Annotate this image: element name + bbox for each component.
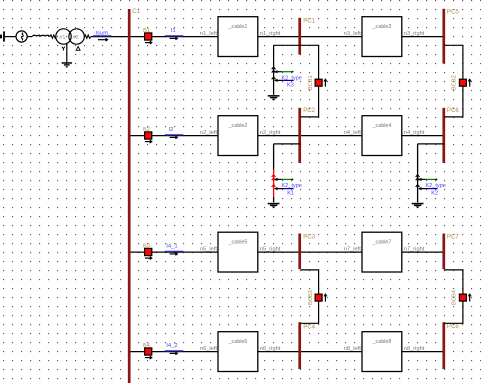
wire row4: cable8 to bus PC8 xyxy=(402,351,445,353)
svg-text:PC6: PC6 xyxy=(447,107,459,114)
current probe I4_1 (blue segment) xyxy=(165,250,184,252)
wire bypass bottom-left (PC3 to PC4) xyxy=(301,270,319,323)
svg-text:BCB3: BCB3 xyxy=(308,290,314,305)
svg-text:K3: K3 xyxy=(287,82,294,88)
svg-text:I1: I1 xyxy=(171,28,176,34)
wire xyxy=(5,36,16,38)
breaker BCB1 xyxy=(315,79,322,86)
wire jog from bus PC6 xyxy=(418,143,444,145)
svg-text:n3_left: n3_left xyxy=(344,31,361,37)
transformer T1 winding 2 xyxy=(69,29,84,44)
cable box _cable3 xyxy=(362,17,402,57)
wire fault F1 vertical xyxy=(273,45,275,95)
wire row2: cable2 to cable4 through bus PC2 xyxy=(258,135,362,137)
svg-text:PC7: PC7 xyxy=(447,233,459,240)
svg-text:PC4: PC4 xyxy=(303,323,315,330)
svg-text:#2: #2 xyxy=(72,35,78,41)
ground (fault F3) xyxy=(412,203,424,205)
wire row4: bus C1 to cable6 xyxy=(130,351,219,353)
terminal bar xyxy=(3,31,5,41)
tap K3 (dark blue) xyxy=(274,79,278,82)
ground (transformer) xyxy=(62,62,72,64)
svg-text:_cable4: _cable4 xyxy=(372,123,392,129)
arrow BCB1 (up) xyxy=(324,80,326,87)
breaker B4 xyxy=(145,348,152,355)
bus PC6 xyxy=(442,108,445,163)
wire row2: cable4 to bus PC6 xyxy=(402,135,445,137)
svg-text:B4: B4 xyxy=(143,343,150,349)
transformer T1 secondary lead zigzag xyxy=(84,35,90,38)
breaker B2 xyxy=(145,132,152,139)
bus C1 xyxy=(128,9,131,383)
wire bypass bottom-right (PC7 to PC8) xyxy=(444,270,463,323)
arrow BCB4 (up) xyxy=(469,295,471,302)
breaker B1 xyxy=(145,33,152,40)
cable box _cable2 xyxy=(218,116,258,156)
arrow BCB2 (up) xyxy=(469,80,471,87)
tap K2 (dark blue) xyxy=(418,187,422,190)
svg-text:n4_left: n4_left xyxy=(344,130,361,136)
current probe I4_2 (blue segment) xyxy=(165,350,184,352)
cable box _cable7 xyxy=(362,232,402,272)
ground (fault F2) xyxy=(268,203,280,205)
wire fault F3 vertical xyxy=(417,144,419,202)
inductor L1 xyxy=(32,35,49,36)
cable box _cable6 xyxy=(218,332,258,372)
tap K1 (dark blue) xyxy=(274,187,278,190)
breaker BCB2 xyxy=(459,79,466,86)
current probe I2 (blue segment) xyxy=(165,134,184,136)
wire row1: cable1 to cable3 through bus PC1 xyxy=(258,36,362,38)
arrow I1 direction xyxy=(170,37,177,39)
source U1 (AC source circle) xyxy=(16,31,27,42)
arrow I4_2 direction xyxy=(170,352,177,354)
breaker B3 xyxy=(145,248,152,255)
svg-text:#1: #1 xyxy=(59,35,65,41)
arrow I2 direction xyxy=(170,136,177,138)
svg-text:n1_left: n1_left xyxy=(200,31,217,37)
fault switch F1 (node K3, between PC1/PC2 bypass) xyxy=(268,45,302,100)
wire row3: cable7 to bus PC7 xyxy=(402,251,445,253)
svg-text:_cable6: _cable6 xyxy=(228,339,248,345)
svg-text:n2_left: n2_left xyxy=(200,130,217,136)
svg-text:PC8: PC8 xyxy=(447,323,459,330)
wire jog from bus PC2 xyxy=(274,143,301,145)
breaker BCB4 xyxy=(459,294,466,301)
svg-text:B3: B3 xyxy=(143,244,150,250)
cable box _cable1 xyxy=(218,17,258,57)
tap K2_type (green) xyxy=(418,178,422,181)
winding Y symbol xyxy=(62,47,65,51)
bus PC1 xyxy=(298,18,301,55)
fault F3 chevrons xyxy=(416,175,420,187)
wire fault F2 vertical upper xyxy=(273,144,275,170)
wire transformer to bus C1 xyxy=(91,36,130,38)
svg-text:B2: B2 xyxy=(143,127,150,133)
current probe Isum (blue segment) xyxy=(93,35,112,37)
arrow B2 direction xyxy=(145,141,151,143)
wire to ground from transformer star point xyxy=(66,44,68,63)
bus PC3 xyxy=(298,234,301,270)
fault F2 chevrons (red) xyxy=(272,175,276,187)
svg-text:I4_2: I4_2 xyxy=(166,343,177,349)
svg-text:PC3: PC3 xyxy=(303,233,315,240)
svg-text:_cable3: _cable3 xyxy=(372,24,392,30)
winding Delta symbol xyxy=(76,47,80,51)
wire xyxy=(27,36,32,38)
arrow BCB3 (up) xyxy=(324,295,326,302)
terminal stub at left edge xyxy=(0,35,2,39)
bus PC4 xyxy=(298,322,301,369)
svg-text:BCB2: BCB2 xyxy=(451,75,457,90)
svg-text:PC5: PC5 xyxy=(447,9,459,16)
arrow B4 direction xyxy=(145,357,151,359)
svg-text:K1: K1 xyxy=(287,191,294,197)
arrow B3 direction xyxy=(145,257,151,259)
svg-text:n6_left: n6_left xyxy=(200,346,217,352)
svg-text:n5_left: n5_left xyxy=(200,247,217,253)
transformer T1 winding 1 xyxy=(56,29,71,44)
svg-text:Isum: Isum xyxy=(95,31,108,37)
svg-text:BCB1: BCB1 xyxy=(308,75,314,90)
svg-text:_cable1: _cable1 xyxy=(228,24,248,30)
svg-text:I4_1: I4_1 xyxy=(166,244,177,250)
wire row3: bus C1 to cable5 xyxy=(130,251,219,253)
fault switch F2 (node K1, below PC2, active red) xyxy=(268,144,302,208)
wire row4: cable6 to cable8 through bus PC4 xyxy=(258,351,362,353)
svg-text:_cable5: _cable5 xyxy=(228,240,248,246)
arrow I4_1 direction xyxy=(170,253,177,255)
bus PC5 xyxy=(442,9,445,64)
svg-text:B1: B1 xyxy=(143,28,150,34)
svg-text:n7_left: n7_left xyxy=(344,247,361,253)
ground (fault F1) xyxy=(268,95,280,97)
svg-text:I2: I2 xyxy=(169,127,174,133)
breaker BCB3 xyxy=(315,294,322,301)
svg-text:n8_left: n8_left xyxy=(344,346,361,352)
bus PC7 xyxy=(442,234,445,270)
wire row1: cable3 to bus PC5 xyxy=(402,36,445,38)
arrow Isum direction xyxy=(98,39,106,41)
svg-text:_cable2: _cable2 xyxy=(228,123,248,129)
current probe I1 (blue segment) xyxy=(165,35,184,37)
wire row3: cable5 to cable7 through bus PC3 xyxy=(258,251,362,253)
fault F1 chevrons xyxy=(272,67,276,79)
svg-text:K2: K2 xyxy=(431,191,438,197)
bus PC2 xyxy=(298,108,301,163)
bus PC8 xyxy=(442,322,445,369)
wire bypass top-right (PC5 to PC6) xyxy=(444,45,463,117)
svg-text:_cable8: _cable8 xyxy=(372,339,392,345)
wire row1: bus C1 to cable1 xyxy=(130,36,219,38)
fault F2 red section xyxy=(273,170,275,198)
svg-text:PC2: PC2 xyxy=(303,107,315,114)
cable box _cable8 xyxy=(362,332,402,372)
transformer T1 primary lead zigzag xyxy=(50,35,56,38)
wire bypass top-left (PC1 to PC2) xyxy=(274,45,319,117)
svg-text:C1: C1 xyxy=(132,8,140,15)
arrow B1 direction xyxy=(145,42,151,44)
svg-text:BCB4: BCB4 xyxy=(451,290,457,305)
svg-text:_cable7: _cable7 xyxy=(372,240,392,246)
wire row2: bus C1 to cable2 xyxy=(130,135,219,137)
svg-text:PC1: PC1 xyxy=(303,17,315,24)
cable box _cable5 xyxy=(218,232,258,272)
tap K2_type (green) xyxy=(274,70,278,73)
tap K2_type (green) xyxy=(274,178,278,181)
fault switch F3 (node K2, below PC6) xyxy=(412,144,446,208)
cable box _cable4 xyxy=(362,116,402,156)
